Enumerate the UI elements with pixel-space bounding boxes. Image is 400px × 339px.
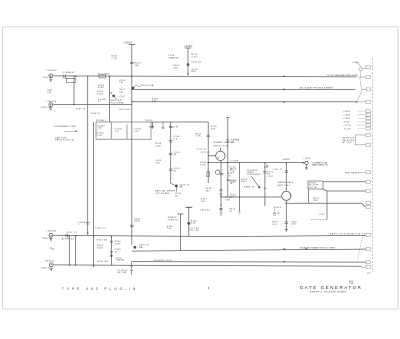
junction dot bus C right — [356, 101, 358, 103]
wire Q5 lead — [171, 183, 177, 191]
capacitor C104 on bus A — [64, 75, 66, 78]
wire lower attenuator vertical b — [75, 236, 77, 265]
svg-text:R204 50K: R204 50K — [97, 261, 109, 263]
svg-text:GA: GA — [139, 246, 143, 249]
pin box y266.7 — [366, 265, 370, 268]
svg-text:DELAYED TRIG: DELAYED TRIG — [154, 259, 172, 262]
svg-text:TUNNEL: TUNNEL — [115, 260, 125, 262]
power label stub y125.1 — [358, 124, 366, 126]
power label stub y111.2 — [358, 110, 366, 112]
svg-text:100K: 100K — [155, 146, 161, 148]
junction dot E at x111 — [111, 236, 112, 237]
transistor Q1 lead — [115, 97, 117, 100]
ground below J101 — [49, 78, 52, 82]
svg-text:+12.2V: +12.2V — [343, 125, 352, 127]
svg-text:4: 4 — [208, 286, 210, 290]
connector J102 — [49, 103, 53, 107]
stub pin y172.3 — [359, 171, 366, 173]
wire tube top lead — [219, 147, 221, 151]
svg-text:27K: 27K — [211, 129, 216, 131]
capacitor on cathode chain y174 — [220, 173, 224, 174]
junction dot E at x69 — [69, 235, 70, 236]
svg-text:L152: L152 — [267, 176, 273, 178]
svg-text:56K: 56K — [201, 201, 206, 203]
CONNECTOR-PLACEHOLDER — [355, 58, 372, 272]
transistor T3 metal can — [282, 191, 291, 200]
svg-text:.001: .001 — [230, 182, 236, 184]
svg-text:10K: 10K — [98, 128, 103, 130]
svg-text:CKT BD: CKT BD — [190, 230, 200, 232]
connector J104 — [49, 263, 53, 267]
svg-text:.001: .001 — [134, 131, 139, 133]
svg-text:R105 50: R105 50 — [76, 109, 86, 111]
resistor tick on V8 — [207, 135, 210, 136]
wire link bus A to pin — [358, 76, 366, 78]
tunnel diode D on lower chain — [110, 255, 112, 257]
arrow external line — [64, 131, 78, 132]
coil L104 on bus A — [99, 75, 106, 78]
capacitor C320 on emitter chain — [285, 222, 289, 223]
svg-text:ATTEN 2X: ATTEN 2X — [62, 238, 75, 241]
svg-text:TD105: TD105 — [145, 120, 153, 122]
pin box y181.7 — [366, 180, 370, 183]
box B1 inner divider 2 — [126, 125, 128, 140]
wire bus F (sweep line) — [132, 249, 366, 251]
svg-text:20K: 20K — [167, 228, 172, 230]
wire lower attenuator vertical a — [68, 236, 70, 265]
junction dot V1 bottom — [73, 104, 74, 105]
svg-text:DELAYING SWEEP TRIG TO VERT: DELAYING SWEEP TRIG TO VERT — [300, 246, 336, 249]
pin box y128.5 — [366, 127, 370, 130]
wire vertical V5 main left rail — [131, 45, 133, 245]
junction dot V1 top — [73, 76, 74, 77]
wire vertical V8 — [207, 122, 209, 183]
svg-text:-150V: -150V — [343, 122, 350, 124]
arrowhead on bus B — [283, 88, 286, 90]
wire top rail link — [151, 121, 208, 123]
wire vertical V4 — [109, 76, 111, 122]
power stub +225V on V5 — [129, 44, 136, 46]
capacitor bars cathode y209 — [219, 208, 222, 209]
svg-text:6.8K: 6.8K — [191, 223, 197, 225]
capacitor bars on V2 — [86, 223, 90, 224]
capacitor ticks x228 y140 — [226, 140, 229, 141]
svg-text:MULTI V135: MULTI V135 — [214, 145, 230, 147]
junction dot bus F right — [306, 248, 308, 250]
capacitor on V10 — [263, 172, 267, 173]
svg-text:+SIG IN: +SIG IN — [43, 77, 53, 79]
wire box1 stub lower — [323, 189, 366, 191]
junction dot on bus G — [284, 261, 286, 263]
svg-text:TRIG IN: TRIG IN — [42, 238, 52, 240]
svg-text:-12.2V: -12.2V — [343, 129, 351, 131]
transistor Q1b on rail V5 — [132, 87, 135, 90]
svg-text:.001: .001 — [155, 162, 161, 164]
transistor Q2 — [187, 63, 190, 66]
delay pickoff box1 — [308, 181, 323, 189]
wire T3 emitter down — [285, 200, 287, 229]
junction dot V5 bus A — [131, 76, 132, 77]
ground below J104 — [50, 267, 53, 271]
svg-text:C125B: C125B — [231, 161, 239, 163]
resistor ticks cathode y196 — [220, 194, 223, 195]
svg-text:1K: 1K — [229, 211, 232, 213]
pin box y89.4 — [366, 88, 370, 91]
pin box y191.0 — [366, 190, 370, 193]
trimmer cross on V4 — [110, 92, 112, 94]
ground V9 bottom — [238, 212, 241, 214]
junction dot bus D at V10 — [264, 162, 265, 163]
svg-text:470: 470 — [152, 100, 157, 102]
connector dashed spine — [371, 58, 373, 272]
filter box under bus A — [67, 78, 76, 82]
svg-text:82: 82 — [174, 170, 177, 172]
wire V12 Q4 branch — [188, 208, 190, 237]
ground below cathode chain — [220, 214, 223, 216]
tube U1 inner dot — [218, 157, 219, 158]
svg-text:SWEEP GATE: SWEEP GATE — [278, 181, 294, 184]
svg-text:SWEEP & TRIGGER BOARD: SWEEP & TRIGGER BOARD — [310, 291, 347, 294]
TEXT-PLACEHOLDER — [41, 42, 371, 294]
svg-text:TO CRT GATE AMPLIFIER V1063: TO CRT GATE AMPLIFIER V1063 — [327, 74, 358, 77]
svg-text:C104A 4.7: C104A 4.7 — [63, 71, 77, 74]
svg-text:2.7K: 2.7K — [111, 58, 117, 60]
wire bus H (lower trig line) — [54, 265, 362, 266]
transistor Q5 — [175, 185, 178, 188]
svg-text:C322: C322 — [319, 214, 325, 216]
pin box y118.2 — [366, 117, 370, 120]
resistor ticks lower chain y252 — [110, 252, 113, 253]
junction dot V5 bus C — [131, 101, 132, 102]
wire cathode to T3 emitter — [221, 196, 282, 198]
pin box y235.0 — [366, 234, 370, 237]
svg-text:AUXILIARY FROM A SWEEP: AUXILIARY FROM A SWEEP — [300, 86, 334, 89]
coupling network box B1 — [96, 122, 151, 139]
svg-text:470K: 470K — [97, 93, 103, 95]
svg-text:L104: L104 — [62, 78, 67, 80]
pin box y249.1 — [366, 248, 370, 251]
svg-text:COAX: COAX — [353, 61, 360, 64]
svg-text:TRIG IN: TRIG IN — [41, 268, 51, 270]
capacitor on bus E — [66, 234, 68, 238]
svg-text:4.7K: 4.7K — [195, 136, 201, 138]
wire L-bend below box1 — [326, 191, 328, 219]
svg-text:10K: 10K — [173, 67, 178, 69]
svg-text:+SAWTOOTH MONITOR TP: +SAWTOOTH MONITOR TP — [328, 233, 366, 236]
capacitor on V5 at y63 — [130, 62, 134, 63]
cable swoop upper — [357, 71, 361, 101]
svg-text:CKT SW: CKT SW — [117, 272, 126, 274]
wire vertical V10 — [264, 163, 266, 205]
ground below J102 — [49, 107, 52, 111]
power stub V11 top — [178, 213, 184, 215]
svg-text:EXTERNAL LINE: EXTERNAL LINE — [54, 125, 76, 128]
junction dot T3 emitter — [286, 203, 288, 205]
svg-text:1K: 1K — [273, 215, 276, 217]
junction dot E at x75 — [75, 235, 76, 236]
resistor ticks on T3 collector — [285, 171, 288, 172]
pin box y77.1 — [366, 76, 370, 79]
pin box y202.8 — [366, 201, 370, 204]
svg-text:C201 2.2: C201 2.2 — [66, 232, 77, 234]
svg-text:FOLLOWER: FOLLOWER — [111, 102, 125, 104]
box B1 inner divider 1 — [110, 122, 112, 139]
junction dot V5 bus B — [131, 89, 132, 90]
svg-text:47: 47 — [115, 251, 118, 253]
ground below J103 — [50, 237, 53, 241]
wire bus B — [132, 88, 355, 90]
svg-text:C107: C107 — [119, 96, 126, 98]
pin box y114.7 — [366, 113, 370, 116]
svg-text:56K: 56K — [313, 200, 318, 202]
svg-text:EMIT FOLL: EMIT FOLL — [278, 185, 291, 187]
svg-text:+300V: +300V — [343, 111, 351, 113]
svg-text:10K: 10K — [241, 181, 246, 183]
pin box y144.9 — [366, 143, 370, 146]
wire vertical V7 capacitor chain — [170, 122, 172, 183]
resistor ticks cathode y190 — [220, 190, 223, 191]
transistor Q1 emitter follower — [112, 95, 115, 98]
svg-text:C47: C47 — [264, 167, 269, 169]
pin box y67.3 — [366, 66, 370, 69]
svg-text:+225V: +225V — [123, 42, 132, 45]
tube U1 envelope — [216, 151, 225, 160]
arrowhead on bus F — [283, 248, 286, 250]
junction dot node A1 — [75, 75, 77, 77]
pin box y125.1 — [366, 124, 370, 127]
svg-text:+125V: +125V — [303, 158, 311, 160]
svg-text:R104A 2: R104A 2 — [96, 119, 107, 122]
potentiometer dot — [258, 186, 260, 188]
arrowhead on bus C — [283, 101, 286, 103]
svg-text:6.8: 6.8 — [174, 139, 178, 141]
svg-text:L C47: L C47 — [231, 139, 239, 141]
svg-text:1W: 1W — [47, 92, 51, 94]
junction dot bus D left — [207, 162, 209, 164]
top bar x228 — [226, 117, 230, 119]
wire J2 to divider — [53, 104, 131, 106]
power label stub y114.7 — [358, 114, 366, 116]
svg-text:TD104 GA: TD104 GA — [141, 84, 154, 87]
cable swoop lower dashed — [358, 237, 363, 260]
resistor ticks lower chain y241 — [110, 241, 113, 242]
pin box y134.9 — [366, 133, 370, 136]
svg-text:1M: 1M — [119, 82, 122, 84]
wire vertical V2 long left — [87, 76, 89, 233]
dashed stub x274 — [273, 206, 275, 215]
wire lower R chain vertical — [110, 236, 112, 266]
svg-text:C318: C318 — [275, 207, 282, 209]
junction dot bus D at V9 — [239, 162, 240, 163]
svg-text:GA: GA — [179, 186, 183, 189]
connector J101 — [49, 74, 53, 78]
svg-text:L100 1-2: L100 1-2 — [95, 227, 106, 229]
COMPONENTS-PLACEHOLDER — [49, 45, 358, 275]
junction dot bus D at T3 — [286, 162, 287, 163]
wire bus G — [131, 261, 366, 264]
pin box y111.2 — [366, 110, 370, 113]
svg-text:FREQ PLUG-IN: FREQ PLUG-IN — [55, 140, 74, 142]
resistor on V8 — [207, 172, 210, 177]
svg-text:C104 1G: C104 1G — [90, 113, 101, 115]
svg-text:1-9: 1-9 — [115, 131, 119, 133]
wire V11 sweep length pot — [179, 214, 181, 251]
connector J103 — [49, 233, 53, 237]
svg-text:10K: 10K — [230, 197, 235, 199]
junction dot on bus A right — [283, 76, 285, 78]
svg-text:6.8K: 6.8K — [200, 164, 206, 166]
test point stem and bars — [305, 165, 308, 169]
junction dot V3 on bus H — [93, 265, 95, 267]
AC squiggle lower — [50, 248, 55, 250]
capacitor stub bars on bus D x267 — [266, 165, 268, 166]
wire vertical V6 (Q2 branch) — [187, 48, 189, 74]
wire vertical V3 — [93, 122, 95, 266]
wire tube grid lead — [208, 155, 216, 157]
coax hook — [357, 64, 360, 68]
svg-text:TYPE 453 PLUG-IN: TYPE 453 PLUG-IN — [62, 287, 138, 291]
svg-text:GA2: GA2 — [149, 126, 154, 129]
ground right of box B1 — [151, 122, 154, 129]
svg-text:100: 100 — [272, 224, 277, 226]
WIRES-PLACEHOLDER — [53, 45, 366, 267]
junction dot cathode wire197 — [220, 196, 221, 197]
test point TP arrowhead on bus D — [303, 162, 305, 164]
pin box y172.3 — [366, 171, 370, 174]
svg-text:+125V: +125V — [185, 207, 193, 209]
svg-text:15K: 15K — [135, 65, 140, 67]
resistor ticks x228 — [227, 179, 230, 180]
svg-text:18: 18 — [174, 154, 177, 156]
svg-text:+225V: +225V — [343, 115, 351, 117]
test point TP circle — [305, 161, 308, 164]
transistor Q6 on bus F — [134, 246, 137, 249]
svg-text:2.5K: 2.5K — [97, 135, 103, 137]
junction dot E at x93 — [93, 236, 94, 237]
svg-text:LENGTH: LENGTH — [168, 219, 178, 221]
wire bus A (+gate input line) — [53, 76, 356, 77]
svg-text:1K: 1K — [228, 175, 231, 177]
wire vertical V9 — [239, 163, 241, 212]
svg-text:+100V: +100V — [343, 118, 351, 120]
svg-text:C110 82: C110 82 — [191, 61, 201, 63]
svg-text:GATE GENERATOR: GATE GENERATOR — [300, 285, 363, 290]
junction dot V2 top — [87, 76, 88, 77]
transistor Q4 — [187, 222, 190, 225]
svg-text:AT TEST: AT TEST — [343, 141, 353, 144]
second vertical x228 — [227, 118, 229, 198]
power label stub y128.5 — [358, 128, 366, 130]
svg-text:L139: L139 — [173, 126, 179, 128]
svg-text:4.7K: 4.7K — [191, 56, 197, 58]
junction dot V4 top — [109, 76, 110, 77]
svg-text:C122 47: C122 47 — [196, 149, 207, 151]
transistor Q135 small circle — [215, 170, 219, 174]
svg-text:180: 180 — [206, 191, 211, 193]
svg-text:J11: J11 — [367, 272, 371, 274]
wire bus D (gate to sweep line) — [208, 162, 305, 164]
junction dot x228 bus D — [227, 162, 228, 163]
capacitor pair on V7 y154 — [169, 153, 173, 154]
junction dot H at x75 — [75, 265, 76, 266]
capacitor pair on V7 y141 — [169, 141, 173, 142]
svg-text:CENTERING: CENTERING — [247, 174, 261, 176]
ground below T3 chain — [285, 230, 288, 232]
svg-text:J B4704: J B4704 — [46, 231, 57, 233]
svg-text:C122 47: C122 47 — [200, 152, 211, 154]
stub with ground at x163 — [162, 122, 165, 129]
T3 case lug — [290, 195, 291, 196]
svg-text:C311 47: C311 47 — [273, 169, 283, 171]
svg-text:CHARGE: CHARGE — [168, 56, 179, 59]
svg-text:TRIG IN: TRIG IN — [41, 107, 51, 109]
svg-text:1M: 1M — [119, 91, 122, 93]
power label stub y121.6 — [358, 121, 366, 123]
pin box y121.6 — [366, 120, 370, 123]
coax link to pin — [362, 67, 366, 70]
svg-text:+GATE TD: +GATE TD — [242, 186, 255, 189]
wire tube cathode chain — [220, 160, 222, 213]
svg-text:56K: 56K — [226, 200, 231, 202]
svg-text:27K: 27K — [230, 171, 235, 173]
svg-text:100K: 100K — [134, 221, 140, 223]
arrowhead Q2 branch onto bus A — [187, 74, 189, 77]
potentiometer wiper arrow — [251, 176, 258, 186]
wire T3 collector from bus D — [285, 163, 287, 192]
wire bus C — [132, 101, 357, 103]
power stub V12 top — [186, 207, 192, 209]
wire box1 stem — [307, 190, 309, 203]
svg-text:D45: D45 — [191, 71, 196, 73]
arrowhead V2 onto bus E — [87, 233, 89, 236]
power label stub y118.2 — [358, 117, 366, 119]
svg-text:R201 1M: R201 1M — [97, 240, 108, 242]
svg-text:J B4703: J B4703 — [46, 101, 57, 103]
svg-text:MAIN TIMING CKT: MAIN TIMING CKT — [312, 164, 329, 167]
svg-text:CKT BD: CKT BD — [309, 187, 318, 189]
tunnel diode squiggle right of Q1b — [134, 85, 141, 87]
svg-text:J B4705: J B4705 — [44, 260, 55, 262]
wire link bus C to pin — [357, 101, 366, 103]
pin box y207.0 — [366, 206, 370, 209]
pin box y262.2 — [366, 261, 370, 264]
junction dot V10 — [264, 188, 266, 190]
svg-text:CKT BOARD: CKT BOARD — [155, 192, 170, 195]
svg-text:DL 170NS: DL 170NS — [98, 74, 110, 76]
dashed board edge below box1 — [311, 219, 327, 221]
wire link bus B to pin — [362, 88, 366, 90]
wire box1 stub upper — [323, 181, 366, 183]
wire hook bus H into pin — [361, 266, 366, 267]
pin box y101.8 — [366, 100, 370, 103]
svg-text:TNB: TNB — [349, 283, 354, 285]
power stub +125V on V6 — [185, 47, 191, 49]
svg-text:250K: 250K — [97, 247, 103, 249]
capacitor on V5 at y226 — [130, 225, 134, 226]
svg-text:R112 470: R112 470 — [119, 109, 130, 111]
junction dot V9 wire197 — [239, 196, 240, 197]
coax terminal circle — [359, 68, 362, 71]
svg-text:J B4702: J B4702 — [46, 70, 57, 72]
svg-text:900K: 900K — [115, 243, 121, 245]
capacitor pair on V7 y170 — [169, 169, 173, 170]
svg-text:SWP RESET: SWP RESET — [345, 173, 360, 175]
svg-text:.001: .001 — [291, 224, 297, 226]
junction dot H at x69 — [69, 264, 70, 265]
ground V10 bottom — [264, 205, 267, 207]
svg-text:C310 82: C310 82 — [200, 209, 211, 211]
bracket for selected resistor pins — [355, 135, 366, 145]
